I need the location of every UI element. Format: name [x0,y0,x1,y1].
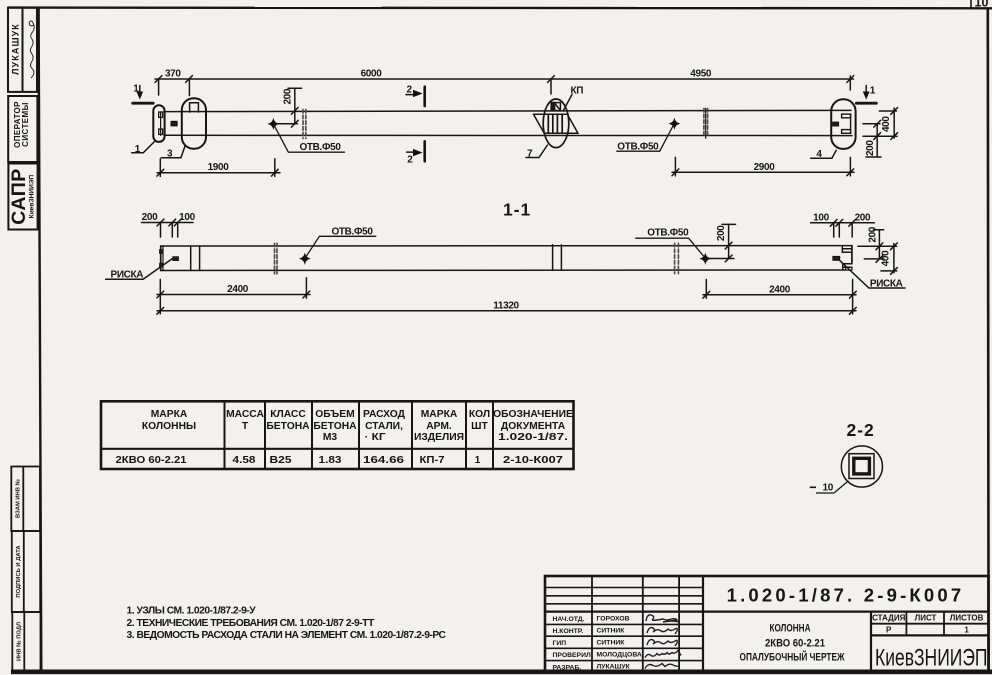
plan dim 2400 left line [157,294,310,296]
KP parallelogram left side [534,114,545,133]
svg-text:164.66: 164.66 [363,455,404,466]
svg-text:СИТНИК: СИТНИК [597,639,626,646]
left strip box INV N PODL [12,612,40,671]
title block designation row divider [545,610,989,612]
plan right dims ticks [830,219,837,226]
svg-text:СТАДИЯ: СТАДИЯ [872,614,905,623]
left strip box SAPR [8,164,37,230]
column bar bottom edge (elevation) [164,134,852,136]
svg-text:Т: Т [242,421,249,432]
plan right 200 ticks [876,243,883,250]
table outer border [101,401,574,469]
svg-text:СТАЛИ,: СТАЛИ, [365,421,403,432]
cap4 mid-left plate [833,122,839,126]
svg-text:4950: 4950 [690,69,712,80]
end cap item 1 (stadium) [153,105,164,142]
leader OTV F50 right (elevation) [617,125,674,151]
signature scribble row5 [645,664,678,669]
frame left border [39,8,42,671]
detail 2-2 circle [841,446,882,487]
plan right dims extensions [833,223,835,237]
title block outer border [545,576,989,672]
item label 3 leader [161,145,185,158]
KP parallelogram top edge [534,113,568,115]
svg-text:МАРКА: МАРКА [151,409,188,420]
svg-text:КП: КП [571,85,584,96]
svg-text:200: 200 [716,225,727,241]
joint center line right pair [705,108,707,138]
column bar top edge (elevation) [164,110,851,111]
svg-text:ОПАЛУБОЧНЫЙ ЧЕРТЕЖ: ОПАЛУБОЧНЫЙ ЧЕРТЕЖ [740,650,845,663]
right side dim 200 line (elevation) [876,124,878,157]
dim 200 vertical left: line [294,88,296,123]
plan hole diamond left [300,254,309,263]
dim 1900 extension right [274,159,276,177]
svg-text:1.83: 1.83 [319,455,342,466]
KP top detail diagonal [555,103,561,111]
plan right dims 100/200 line [811,222,875,224]
svg-text:2КВО 60-2.21: 2КВО 60-2.21 [765,637,825,649]
riska label right leader [840,260,905,288]
plan riska mark right [833,257,840,261]
plan 2400 left extensions [159,279,161,313]
plan right 200 hole level line [864,258,883,260]
plan 2400 right ticks [703,291,710,298]
svg-text:РИСКА: РИСКА [111,269,144,280]
plan dashed pair right [674,243,676,273]
item label 1 leader [132,141,155,153]
item label 4 leader [811,150,837,158]
svg-text:11320: 11320 [493,300,519,311]
right side 200 extension at hole level [863,123,880,125]
svg-text:КиевЗНИИЭП: КиевЗНИИЭП [29,174,36,218]
plan left face double line [160,246,162,271]
plan right 400 dim vertical [893,244,895,273]
svg-text:МОЛОДЦОВА: МОЛОДЦОВА [597,651,642,658]
svg-text:МАССА: МАССА [226,409,264,420]
svg-text:ОТВ.Ф50: ОТВ.Ф50 [647,228,689,239]
svg-text:РАЗРАБ.: РАЗРАБ. [553,664,582,671]
plan bar bottom edge [161,269,846,272]
section mark 2 top [406,94,415,96]
right side 200 bottom bar [866,156,881,158]
cap4 inner right vertical [850,114,852,133]
svg-text:Р: Р [886,626,892,635]
plan 11320 ticks [157,307,164,314]
plan center interior line a [552,245,554,270]
plan right 400 ticks [891,243,898,250]
fixture mark between cap1 and oval3 [171,122,177,126]
svg-text:В25: В25 [270,455,292,466]
svg-text:100: 100 [813,212,829,223]
svg-text:КОЛ: КОЛ [469,409,490,420]
item3 notch right line [197,103,199,112]
left strip box PODPIS I DATA [12,531,40,612]
plan right 200 T bar [874,229,884,231]
svg-text:ШТ: ШТ [471,421,488,432]
plan dim 2400 right line [703,294,856,296]
plan left dims ticks [157,219,164,226]
plan OTV F50 right leader [636,238,705,257]
dim 200 tick at hole [291,120,298,127]
plan 2400 right extensions [705,279,707,298]
extension line right end [849,76,851,90]
svg-text:РИСКА: РИСКА [870,278,903,289]
signature scribble row4 [645,651,681,658]
svg-text:4.58: 4.58 [233,455,256,466]
signature scribble row3 [647,640,677,646]
extension line 370 [188,79,190,96]
svg-text:ИНВ № ПОДЛ: ИНВ № ПОДЛ [16,622,22,661]
svg-text:ОБЪЕМ: ОБЪЕМ [315,409,354,420]
svg-text:ДОКУМЕНТА: ДОКУМЕНТА [501,421,566,432]
title block stadia column lines [870,612,872,672]
svg-text:1: 1 [870,86,876,97]
dim 200 top T bar [288,87,302,89]
plan left dims extensions [160,223,162,238]
plan riska mark left [173,257,178,261]
svg-text:200: 200 [855,212,871,223]
svg-text:3. ВЕДОМОСТЬ РАСХОДА СТАЛИ НА: 3. ВЕДОМОСТЬ РАСХОДА СТАЛИ НА ЭЛЕМЕНТ СМ… [127,630,447,641]
plan dim 200 mid tick bar top [725,242,732,249]
plan dim 11320 line [157,310,856,312]
cap1 inner vertical line [160,112,162,136]
dim 1900: line [157,172,280,174]
svg-text:ОТВ.Ф50: ОТВ.Ф50 [300,142,342,153]
dim 2900 extension left [674,157,676,176]
svg-text:1. УЗЛЫ СМ. 1.020-1/87.2-9-У: 1. УЗЛЫ СМ. 1.020-1/87.2-9-У [127,606,257,617]
svg-text:100: 100 [179,212,195,223]
plan right bottom tab lines [843,263,852,265]
svg-text:1-1: 1-1 [503,200,531,220]
plan left interior line a [190,246,192,271]
svg-text:САПР: САПР [8,168,30,224]
svg-text:200: 200 [868,226,879,242]
svg-text:М3: М3 [323,432,338,443]
plan hole diamond right [701,254,710,263]
svg-text:10: 10 [975,0,989,10]
svg-text:1: 1 [964,626,969,635]
section mark 2 bottom [407,151,415,153]
plan right 200 dim vertical [878,230,880,259]
svg-text:ГИП: ГИП [553,640,567,647]
svg-text:200: 200 [865,140,876,156]
frame right border [986,8,989,671]
signature scribble row2 [647,628,677,634]
svg-text:1.020-1/87. 2-9-К007: 1.020-1/87. 2-9-К007 [727,585,965,606]
svg-text:КиевЗНИИЭП: КиевЗНИИЭП [875,645,988,672]
section mark 1 right thick line [856,102,876,105]
dim ticks main line [155,76,162,83]
lifting loop item 3 (stadium) [182,98,206,149]
left strip signature lukashuk [29,21,34,78]
svg-text:2. ТЕХНИЧЕСКИЕ ТРЕБОВАНИЯ СМ.: 2. ТЕХНИЧЕСКИЕ ТРЕБОВАНИЯ СМ. 1.020-1/87… [127,618,375,629]
plan left interior line b [199,246,201,271]
dim 2900 extension right [849,157,851,176]
svg-text:ГОРОХОВ: ГОРОХОВ [597,615,630,622]
plan dim 200 mid tick hole [725,255,732,262]
joint dashed lines right pair [703,109,705,137]
svg-text:БЕТОНА: БЕТОНА [313,421,357,432]
item label 7 leader [526,145,548,158]
svg-text:2-10-К007: 2-10-К007 [503,455,563,466]
section mark 1 right arrow [865,86,867,93]
svg-text:7: 7 [527,149,533,160]
svg-text:ПРОВЕРИЛ: ПРОВЕРИЛ [553,652,591,659]
svg-text:2900: 2900 [754,162,776,173]
title block signature row lines [545,623,703,625]
svg-text:РАСХОД: РАСХОД [363,409,406,420]
dim 1900 ticks [157,169,164,176]
svg-text:2: 2 [407,155,413,166]
KP ellipse [543,99,569,148]
svg-text:ВЗАМ ИНВ №: ВЗАМ ИНВ № [15,479,21,518]
cap1 inner top tab [159,112,163,117]
leader OTV F50 left (elevation) [275,126,345,152]
svg-text:БЕТОНА: БЕТОНА [266,421,310,432]
svg-text:АРМ.: АРМ. [426,421,452,432]
svg-text:КЛАСС: КЛАСС [270,409,306,420]
svg-text:ИЗДЕЛИЯ: ИЗДЕЛИЯ [414,432,464,443]
plan right end face [851,246,853,264]
svg-text:2-2: 2-2 [847,420,875,440]
svg-text:· КГ: · КГ [365,432,386,443]
left strip box OPERATOR SISTEMY [8,96,37,162]
svg-text:КОЛОННА: КОЛОННА [770,622,811,634]
frame top border [8,6,992,9]
KP parallelogram bottom edge [544,132,578,134]
cap4 inner bottom tab [842,130,851,134]
KP label leader [563,95,572,111]
svg-text:370: 370 [165,69,181,80]
KP top detail square [551,103,560,111]
detail 2-2 inner square thick [854,458,870,474]
item3 notch top line [190,102,199,104]
svg-text:ЛИСТОВ: ЛИСТОВ [950,614,984,623]
plan right bottom corner piece [846,267,852,270]
svg-text:ОТВ.Ф50: ОТВ.Ф50 [617,141,659,152]
svg-text:1: 1 [135,144,141,155]
frame bottom border [11,669,992,674]
svg-text:2: 2 [407,85,413,96]
svg-text:1.020-1/87.: 1.020-1/87. [498,432,568,443]
plan center interior line b [560,245,562,270]
extension line 6000/4950 [550,79,552,94]
page number box line [970,0,972,8]
title block column lines left [591,576,593,672]
plan dim 200 mid hole line [708,258,734,260]
svg-text:СИТНИК: СИТНИК [597,627,626,634]
svg-text:6000: 6000 [361,69,383,80]
section mark 1 left arrow [139,86,141,93]
svg-text:2400: 2400 [227,284,249,295]
cap4 inner top tab [842,114,851,118]
dim 1900 extension left [159,159,161,177]
dim 200 tick at bar top [291,107,298,114]
signature scribble row1 [646,615,679,622]
plan bar top edge [161,245,852,247]
plan left dims 200/100 line [142,222,194,224]
riska label left leader [106,259,172,279]
cap1 inner bottom tab [159,129,163,134]
svg-text:МАРКА: МАРКА [421,409,458,420]
svg-text:ЛУКАШУК: ЛУКАШУК [11,23,21,75]
svg-text:2КВО 60-2.21: 2КВО 60-2.21 [116,455,187,466]
plan right top tab lines [842,248,852,250]
detail 2-2 dash mark [810,486,816,488]
hole diamond marker right (elevation) [670,119,679,128]
svg-text:1900: 1900 [208,162,230,173]
table column lines [224,401,226,470]
hole diamond marker left (elevation) [269,120,278,129]
KP hatch lines [547,114,549,133]
right side 400 extension bottom [863,135,897,137]
svg-text:3: 3 [167,149,173,160]
svg-text:ОТВ.Ф50: ОТВ.Ф50 [332,226,374,237]
plan left face top tab [160,250,163,254]
table header row divider [101,448,574,450]
svg-text:1: 1 [475,455,481,466]
svg-text:ЛИСТ: ЛИСТ [915,614,937,623]
joint dashed lines left pair [302,110,304,139]
dim 2900 ticks [672,169,679,176]
svg-text:КОЛОННЫ: КОЛОННЫ [142,421,196,432]
title block rows top small [545,587,703,589]
svg-text:КП-7: КП-7 [420,455,445,466]
extension line left end [158,79,160,95]
title block stadia row lines [871,623,989,625]
detail 2-2 outer square [849,454,874,479]
end cap item 4 (stadium) [831,99,855,149]
detail 2-2 leader [816,481,849,493]
svg-text:200: 200 [142,212,158,223]
svg-text:ЛУКАШУК: ЛУКАШУК [597,663,631,670]
item3 notch left line [189,103,191,112]
plan right 400 ext bottom [881,270,897,272]
svg-text:ОБОЗНАЧЕНИЕ: ОБОЗНАЧЕНИЕ [493,409,573,420]
plan OTV F50 left leader [306,236,376,257]
plan dim 200 mid T bar [722,223,736,225]
section mark 1 left thick line [133,102,154,105]
svg-text:1: 1 [133,84,139,95]
right side 400 extension top [879,110,896,112]
left strip box VZAM INV [11,467,40,532]
svg-text:400: 400 [881,250,892,266]
plan dashed pair left [274,243,276,273]
dim 200 hole level line [274,123,298,125]
svg-text:ПОДПИСЬ И ДАТА: ПОДПИСЬ И ДАТА [16,545,22,598]
right side dim 400 line (elevation) [893,108,895,138]
svg-text:10: 10 [823,483,834,494]
KP top detail filled bar [551,103,554,111]
svg-text:2400: 2400 [769,284,791,295]
plan dim 200 mid: vertical line [728,224,730,258]
main dimension line 370/6000/4950 [155,78,854,80]
svg-text:4: 4 [816,149,822,160]
svg-text:СИСТЕМЫ: СИСТЕМЫ [21,102,30,147]
plan right 400 ext top [858,245,897,247]
left strip box LUKASHUK [8,8,37,92]
dim 2900: line [672,171,854,173]
svg-text:200: 200 [283,88,294,104]
KP parallelogram right side [567,114,578,133]
plan left face bottom tab [160,263,163,267]
svg-text:400: 400 [881,116,892,132]
svg-text:Н.КОНТР.: Н.КОНТР. [553,628,584,635]
svg-text:НАЧ.ОТД.: НАЧ.ОТД. [553,616,585,623]
plan 2400 left ticks [157,291,164,298]
